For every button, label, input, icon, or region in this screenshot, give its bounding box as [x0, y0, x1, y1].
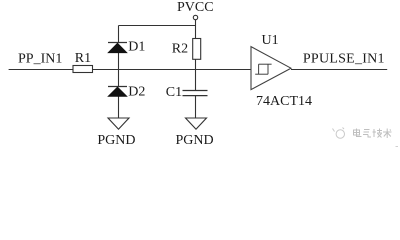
- svg-text:PGND: PGND: [97, 133, 135, 148]
- svg-text:PGND: PGND: [176, 133, 214, 148]
- svg-text:D1: D1: [128, 39, 145, 54]
- svg-text:C1: C1: [166, 85, 182, 100]
- svg-text:74ACT14: 74ACT14: [256, 94, 312, 109]
- svg-text:PVCC: PVCC: [177, 0, 214, 15]
- svg-text:R1: R1: [75, 51, 91, 66]
- svg-text:PPULSE_IN1: PPULSE_IN1: [303, 52, 385, 67]
- svg-text:U1: U1: [262, 33, 279, 48]
- svg-text:D2: D2: [128, 85, 145, 100]
- svg-text:R2: R2: [172, 41, 188, 56]
- svg-text:PP_IN1: PP_IN1: [18, 51, 62, 66]
